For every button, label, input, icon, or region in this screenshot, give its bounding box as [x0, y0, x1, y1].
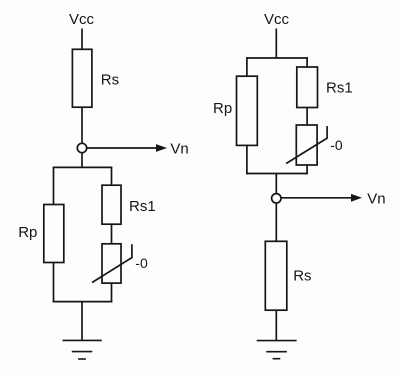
ground symbol (left)	[63, 340, 102, 359]
svg-text:Rp: Rp	[18, 224, 37, 241]
svg-text:Vcc: Vcc	[69, 11, 95, 28]
wire left branch lower (right)	[246, 145, 248, 174]
node Vn junction circle (left)	[77, 143, 86, 152]
wire arrow to Vn (right)	[281, 197, 352, 199]
thermistor diagonal stroke (right)	[286, 126, 327, 163]
wire Rs bottom to node (left)	[81, 107, 83, 143]
wire thermistor to bottom bus (left)	[111, 283, 113, 302]
wire bottom bus to node (right)	[275, 174, 277, 194]
wire bottom bus to ground (left)	[81, 302, 83, 341]
wire Rs1 to thermistor (left)	[111, 224, 113, 244]
arrowhead Vn (left)	[156, 144, 167, 152]
wire bottom bus (left)	[53, 301, 113, 303]
wire Rs bottom to ground (right)	[275, 310, 277, 340]
thermistor RT body (left)	[102, 244, 121, 283]
svg-text:Vn: Vn	[367, 190, 385, 207]
thermistor RT body (right)	[296, 125, 317, 165]
resistor Rs (right)	[265, 241, 287, 310]
wire node to Rs top (right)	[275, 203, 277, 241]
wire left branch upper (left)	[53, 167, 55, 205]
resistor Rs1 (left)	[102, 185, 121, 224]
node Vn junction circle (right)	[272, 194, 281, 203]
resistor Rs1 (right)	[297, 67, 318, 108]
wire left branch lower (left)	[53, 263, 55, 303]
svg-text:-0: -0	[330, 137, 343, 153]
wire bottom bus (right)	[246, 173, 308, 175]
svg-text:Vcc: Vcc	[264, 11, 290, 28]
resistor Rs (left)	[72, 49, 92, 107]
wire left branch upper (right)	[246, 57, 248, 76]
arrowhead Vn (right)	[351, 194, 362, 202]
resistor Rp (right)	[237, 76, 258, 145]
wire right branch upper (left)	[111, 167, 113, 186]
thermistor diagonal stroke (left)	[92, 244, 132, 282]
svg-text:Rp: Rp	[213, 100, 232, 117]
wire thermistor to bottom bus (right)	[306, 165, 308, 174]
wire right branch upper (right)	[306, 57, 308, 67]
wire Vcc to top bus (right)	[275, 29, 277, 59]
svg-text:-0: -0	[135, 255, 148, 271]
wire Rs1 to thermistor (right)	[306, 108, 308, 126]
wire top bus (right)	[246, 57, 308, 59]
svg-text:Vn: Vn	[170, 141, 188, 158]
svg-text:Rs: Rs	[293, 268, 311, 285]
svg-text:Rs1: Rs1	[326, 80, 353, 97]
wire arrow to Vn (left)	[87, 147, 158, 149]
resistor Rp (left)	[44, 205, 64, 263]
wire Vcc to Rs top (left)	[81, 29, 83, 50]
ground symbol (right)	[257, 341, 297, 359]
wire node to top bus (left)	[81, 153, 83, 168]
svg-text:Rs1: Rs1	[129, 198, 156, 215]
wire top bus (left)	[53, 166, 113, 168]
svg-text:Rs: Rs	[101, 71, 119, 88]
